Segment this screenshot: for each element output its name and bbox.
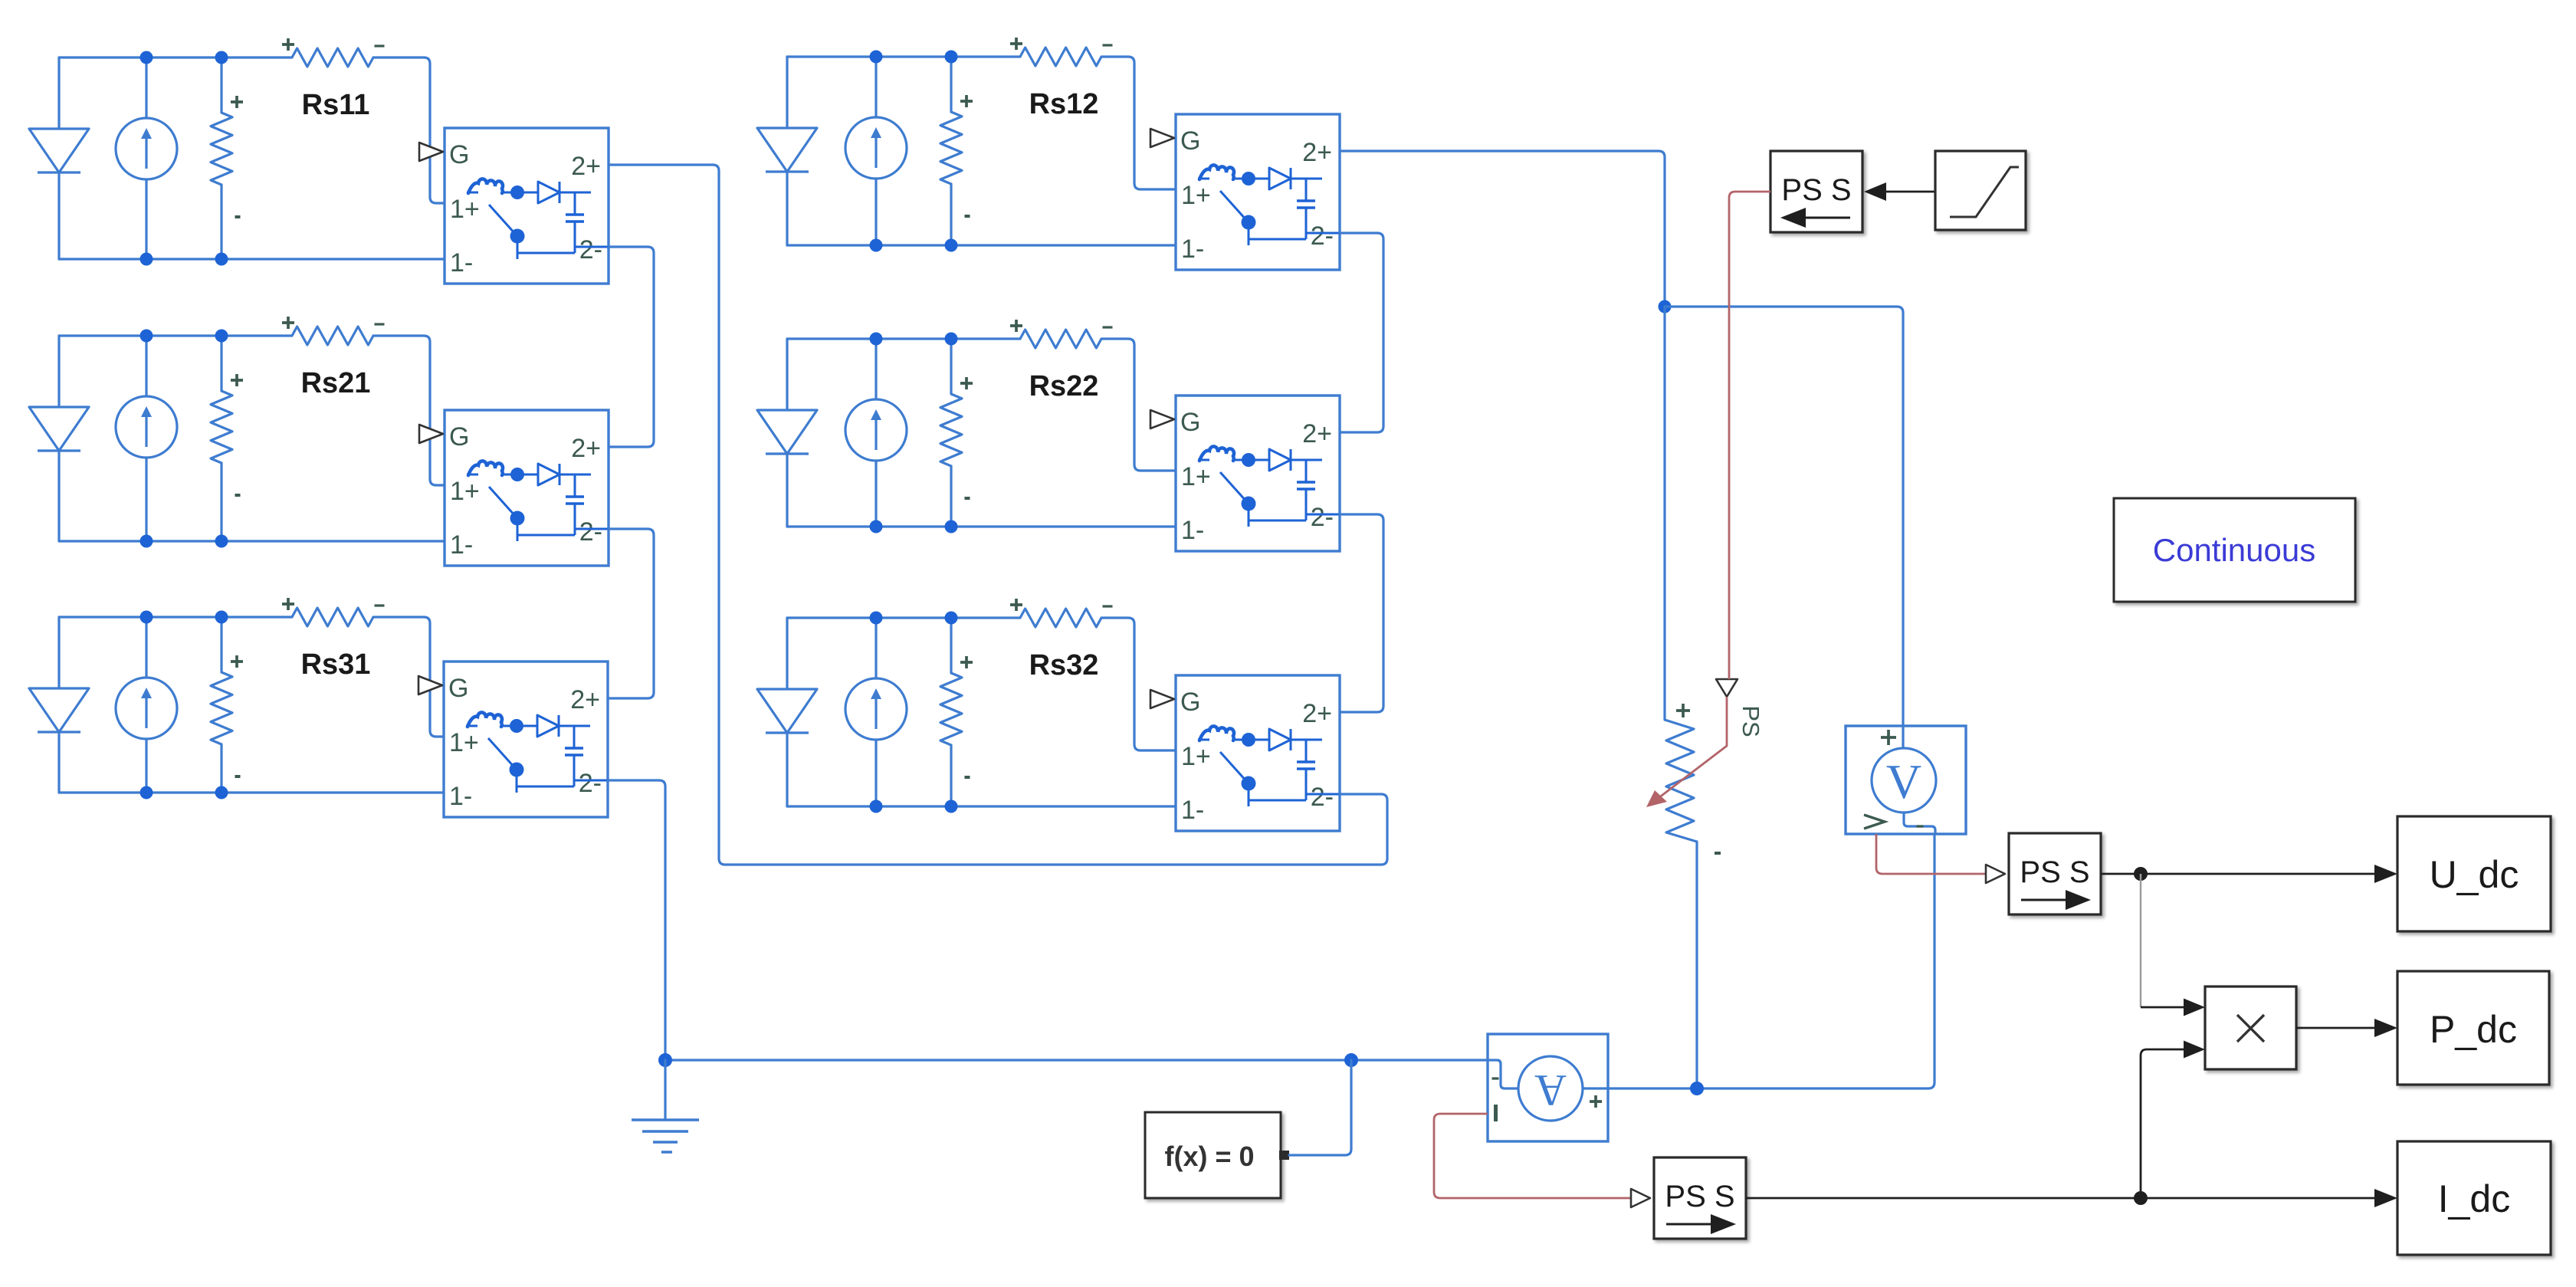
wire 11 bottom rail (to 1- port) xyxy=(59,258,445,260)
svg-text:2+: 2+ xyxy=(1302,419,1332,448)
variable resistor R load xyxy=(1665,307,1721,1088)
junction dots 11 xyxy=(140,51,228,266)
diode D12 xyxy=(757,57,817,245)
svg-text:A: A xyxy=(1534,1065,1567,1115)
current source I12 xyxy=(845,57,907,245)
svg-text:P_dc: P_dc xyxy=(2430,1008,2517,1051)
svg-text:1-: 1- xyxy=(1181,516,1204,545)
wire 31 bottom rail (to 1- port) xyxy=(59,791,444,793)
svg-text:Rs22: Rs22 xyxy=(1029,370,1099,402)
variable resistor PS port triangle xyxy=(1716,679,1738,697)
current source I21 xyxy=(116,336,177,541)
wire ground bus xyxy=(665,1059,1488,1061)
svg-text:2-: 2- xyxy=(579,235,602,264)
ground (electrical reference) xyxy=(632,1060,699,1152)
junction dot load bottom xyxy=(1690,1082,1704,1095)
svg-text:G: G xyxy=(1180,408,1200,437)
wire SW22 2- to SW32 2+ xyxy=(1340,514,1383,712)
junction dot solver tap xyxy=(1344,1053,1358,1067)
svg-text:2+: 2+ xyxy=(571,152,601,181)
wire 21 bottom rail (to 1- port) xyxy=(59,540,445,542)
diode D32 xyxy=(757,618,817,806)
wire 22 top rail xyxy=(787,337,1020,340)
shunt resistor Rsh12 xyxy=(940,57,973,245)
wire Rs12 to switch 1+ xyxy=(1101,57,1176,189)
series resistor Rs22 xyxy=(1010,320,1113,348)
svg-text:G: G xyxy=(449,140,469,169)
svg-text:2+: 2+ xyxy=(570,685,600,714)
svg-text:2-: 2- xyxy=(1311,503,1334,532)
svg-text:1+: 1+ xyxy=(449,728,479,757)
wire Rs32 to switch 1+ xyxy=(1101,618,1176,750)
svg-text:2+: 2+ xyxy=(1302,138,1332,167)
svg-text:2-: 2- xyxy=(1311,222,1334,251)
PS-S converter U2 (voltage) xyxy=(2009,833,2101,914)
solver configuration block f(x)=0 xyxy=(1145,1112,1289,1198)
svg-text:I_dc: I_dc xyxy=(2438,1177,2511,1220)
svg-text:f(x) = 0: f(x) = 0 xyxy=(1164,1141,1254,1172)
current source I22 xyxy=(845,339,907,527)
wire Rs22 to switch 1+ xyxy=(1101,339,1176,471)
wire solver to ground bus xyxy=(1289,1060,1351,1155)
label Rs22 xyxy=(1029,370,1099,402)
svg-text:PS S: PS S xyxy=(1781,173,1851,207)
shunt resistor Rsh31 xyxy=(211,617,243,793)
signal wire converter U3 to I_dc xyxy=(1746,1189,2397,1207)
signal wire saturation to converter U1 xyxy=(1864,182,1935,201)
svg-text:1+: 1+ xyxy=(450,477,480,506)
wire 32 bottom rail (to 1- port) xyxy=(787,805,1176,807)
svg-text:Continuous: Continuous xyxy=(2153,532,2315,568)
red control arrow through variable resistor xyxy=(1646,697,1727,807)
wire Rs31 to switch 1+ xyxy=(373,617,444,737)
svg-text:PS S: PS S xyxy=(2020,855,2089,889)
outport I_dc xyxy=(2397,1141,2551,1255)
wire 11 top rail xyxy=(59,56,292,58)
svg-text:U_dc: U_dc xyxy=(2430,853,2519,896)
shunt resistor Rsh21 xyxy=(211,336,243,541)
junction dots 31 xyxy=(140,611,228,799)
switch block SW31 xyxy=(418,662,608,817)
wire 31 top rail xyxy=(59,616,292,618)
wire 12 bottom rail (to 1- port) xyxy=(787,244,1176,246)
outport U_dc xyxy=(2397,816,2551,931)
wire SW11 2- to SW21 2+ xyxy=(609,247,654,447)
svg-text:G: G xyxy=(449,422,469,451)
svg-text:1-: 1- xyxy=(1181,235,1204,264)
svg-text:Rs12: Rs12 xyxy=(1029,88,1099,120)
svg-text:2+: 2+ xyxy=(571,434,601,463)
current source I11 xyxy=(116,57,177,259)
signal wire converter U2 to U_dc xyxy=(2101,865,2397,883)
series resistor Rs32 xyxy=(1010,599,1113,627)
shunt resistor Rsh22 xyxy=(940,339,973,527)
series resistor Rs12 xyxy=(1010,38,1113,66)
wire 22 bottom rail (to 1- port) xyxy=(787,525,1176,527)
label Rs21 xyxy=(301,367,371,399)
junction dot voltage signal xyxy=(2134,867,2148,881)
svg-text:Rs31: Rs31 xyxy=(301,648,371,681)
svg-text:2-: 2- xyxy=(1311,783,1334,812)
shunt resistor Rsh32 xyxy=(940,618,973,806)
PS-S converter U3 (current) xyxy=(1654,1157,1746,1239)
signal wire current to product in2 xyxy=(2141,1041,2205,1199)
svg-text:PS S: PS S xyxy=(1665,1180,1734,1213)
switch block SW11 xyxy=(419,128,609,284)
svg-text:2+: 2+ xyxy=(1302,699,1332,728)
svg-text:G: G xyxy=(1180,688,1200,717)
diode D31 xyxy=(29,617,89,793)
label Rs12 xyxy=(1029,88,1099,120)
svg-text:1-: 1- xyxy=(450,248,473,277)
series resistor Rs11 xyxy=(282,38,385,67)
voltage sensor block xyxy=(1846,726,1966,834)
svg-text:G: G xyxy=(448,674,468,703)
signal wire product to P_dc xyxy=(2296,1019,2397,1037)
shunt resistor Rsh11 xyxy=(211,57,243,259)
node A junction dot xyxy=(1659,300,1672,314)
current source I32 xyxy=(845,618,907,806)
svg-text:Rs32: Rs32 xyxy=(1029,649,1099,681)
svg-text:1-: 1- xyxy=(1181,796,1204,825)
label Rs32 xyxy=(1029,649,1099,681)
red wire current sensor to PS-S converter 3 xyxy=(1434,1114,1630,1198)
label PS (rotated) xyxy=(1738,705,1764,737)
label Rs31 xyxy=(301,648,371,681)
wire SW31 2- to ground bus xyxy=(608,780,665,1060)
diode D22 xyxy=(757,339,817,527)
svg-text:G: G xyxy=(1180,126,1200,156)
wire SW12 2+ to node A xyxy=(1340,151,1665,307)
junction dot current signal xyxy=(2134,1191,2148,1205)
svg-text:1+: 1+ xyxy=(1181,462,1211,491)
series resistor Rs21 xyxy=(282,317,385,345)
junction dots 32 xyxy=(870,612,958,813)
product block xyxy=(2205,987,2296,1069)
wire 32 top rail xyxy=(787,616,1020,619)
svg-text:Rs21: Rs21 xyxy=(301,367,371,399)
svg-text:PS: PS xyxy=(1738,705,1764,737)
wire SW12 2- to SW22 2+ xyxy=(1340,233,1383,432)
Continuous solver block xyxy=(2114,498,2355,602)
series resistor Rs31 xyxy=(282,598,385,626)
switch block SW21 xyxy=(419,410,609,566)
switch block SW22 xyxy=(1150,396,1340,551)
junction dots 21 xyxy=(140,330,228,548)
wire Rs21 to switch 1+ xyxy=(373,336,445,485)
switch block SW12 xyxy=(1150,114,1340,270)
wire Rs11 to switch 1+ xyxy=(373,57,445,203)
svg-text:1+: 1+ xyxy=(1181,181,1211,210)
red wire converter U1 to load PS port xyxy=(1729,192,1770,679)
switch block SW32 xyxy=(1150,675,1340,831)
signal wire voltage to product in1 xyxy=(2141,874,2205,1016)
svg-text:1-: 1- xyxy=(450,530,473,560)
wire SW21 2- to SW31 2+ xyxy=(608,529,654,698)
label Rs11 xyxy=(302,89,370,121)
svg-text:1-: 1- xyxy=(449,782,472,811)
PS input port triangle of converter 2 xyxy=(1986,865,2005,883)
PS-S converter U1 (top) xyxy=(1770,151,1862,232)
junction dots 22 xyxy=(870,333,958,534)
current sensor block xyxy=(1488,1034,1608,1141)
svg-text:1+: 1+ xyxy=(450,195,480,224)
wire node A to voltage sensor + xyxy=(1665,307,1903,726)
saturation block xyxy=(1935,151,2026,230)
junction dots 12 xyxy=(870,51,958,252)
outport P_dc xyxy=(2397,971,2549,1085)
wire SW32 2- to SW11 2+ xyxy=(609,165,1387,865)
svg-text:2-: 2- xyxy=(579,517,602,547)
junction dot bus-left xyxy=(658,1053,672,1067)
red wire V sensor to PS-S converter xyxy=(1876,834,1985,874)
PS input port triangle of converter 3 xyxy=(1631,1189,1650,1207)
diode D21 xyxy=(29,336,89,541)
current source I31 xyxy=(116,617,177,793)
wire current sensor output xyxy=(1608,834,1934,1088)
svg-text:Rs11: Rs11 xyxy=(302,89,370,121)
svg-text:V: V xyxy=(1886,754,1921,809)
wire 21 top rail xyxy=(59,334,292,337)
diode D11 xyxy=(29,57,89,259)
wire 12 top rail xyxy=(787,55,1020,57)
svg-text:1+: 1+ xyxy=(1181,742,1211,771)
svg-text:2-: 2- xyxy=(579,769,602,798)
